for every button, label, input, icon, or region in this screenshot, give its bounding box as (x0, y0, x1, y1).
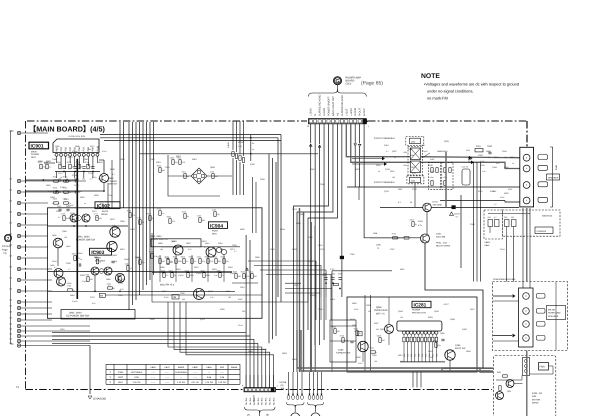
svg-text:R186: R186 (428, 164, 433, 167)
svg-text:0.047: 0.047 (500, 196, 505, 199)
svg-text:NOTE: NOTE (421, 73, 440, 80)
svg-text:R890: R890 (160, 266, 165, 269)
svg-text:Q281: Q281 (376, 306, 382, 309)
svg-text:L-GND: L-GND (310, 108, 313, 116)
svg-text:R28: R28 (414, 354, 417, 357)
svg-text:Q515: Q515 (494, 156, 499, 159)
svg-text:BT93, 132: BT93, 132 (532, 392, 543, 395)
svg-text:L504: L504 (403, 164, 407, 167)
svg-text:C376: C376 (412, 188, 417, 191)
svg-text:Q904: Q904 (66, 245, 70, 248)
svg-text:R894: R894 (70, 294, 75, 297)
svg-text:100: 100 (337, 330, 340, 333)
svg-text:330: 330 (218, 260, 221, 263)
svg-text:EXCEPT KB50/KBs3: EXCEPT KB50/KBs3 (374, 181, 395, 184)
svg-text:2k: 2k (410, 201, 412, 204)
svg-text:0.01: 0.01 (412, 172, 416, 175)
svg-text:4.7k: 4.7k (172, 220, 175, 223)
svg-text:0.01: 0.01 (182, 161, 186, 164)
svg-text:R600: R600 (157, 165, 161, 168)
svg-text:MAIN: MAIN (31, 151, 37, 154)
svg-text:C939: C939 (478, 154, 483, 157)
svg-text:47μ: 47μ (175, 161, 178, 164)
svg-text:L-OUT: L-OUT (345, 108, 348, 116)
svg-text:1k: 1k (359, 332, 361, 335)
svg-text:100: 100 (114, 260, 117, 263)
svg-text:C788: C788 (67, 285, 71, 288)
svg-text:4.7: 4.7 (108, 284, 111, 287)
svg-text:R28: R28 (421, 354, 424, 357)
svg-text:C276: C276 (90, 296, 95, 299)
svg-text:D828: D828 (377, 335, 381, 338)
svg-text:Q583: Q583 (380, 328, 385, 331)
svg-text:D741: D741 (433, 201, 439, 204)
svg-text:100: 100 (126, 264, 129, 267)
svg-text:D372: D372 (182, 171, 186, 174)
svg-text:PQ5A: PQ5A (212, 230, 218, 233)
svg-text:0.01: 0.01 (120, 288, 124, 291)
svg-text:47μ/50: 47μ/50 (178, 274, 184, 277)
svg-text:IC904: IC904 (210, 223, 223, 229)
svg-text:DET ±-5: DET ±-5 (376, 312, 385, 315)
svg-text:Q629: Q629 (444, 140, 449, 143)
svg-text:100: 100 (99, 217, 102, 220)
svg-text:47μ: 47μ (438, 344, 441, 347)
svg-text:Q624: Q624 (376, 164, 381, 167)
svg-text:C628: C628 (260, 178, 265, 181)
svg-text:C370: C370 (157, 256, 161, 259)
svg-text:2.2k: 2.2k (482, 170, 485, 173)
svg-text:POWER SWITCH: POWER SWITCH (76, 238, 95, 241)
svg-text:C915: C915 (57, 205, 61, 208)
svg-text:4.7: 4.7 (204, 246, 207, 249)
svg-text:Q741: Q741 (436, 233, 442, 236)
svg-text:REG: REG (31, 156, 36, 159)
svg-text:330: 330 (182, 298, 185, 301)
svg-text:100k: 100k (410, 154, 414, 157)
svg-text:0.01: 0.01 (58, 180, 62, 183)
svg-text:1/2W: 1/2W (430, 176, 434, 179)
svg-text:D574: D574 (68, 156, 73, 159)
svg-text:C354: C354 (197, 256, 201, 259)
svg-text:SURROUND-GND: SURROUND-GND (341, 95, 344, 116)
svg-text:+3.15/+3.15, 3V5: +3.15/+3.15, 3V5 (68, 135, 86, 138)
svg-text:R876: R876 (355, 168, 360, 171)
svg-text:R274: R274 (67, 161, 71, 164)
svg-text:1k: 1k (96, 216, 98, 219)
svg-text:R28: R28 (425, 354, 428, 357)
svg-text:R310: R310 (310, 168, 315, 171)
svg-text:R839: R839 (466, 350, 471, 353)
svg-text:330: 330 (220, 248, 223, 251)
svg-text:R920: R920 (504, 192, 509, 195)
svg-text:•Voltages and waveforms are dc: •Voltages and waveforms are dc with resp… (424, 82, 519, 87)
svg-text:10k: 10k (400, 360, 403, 363)
svg-text:D301: D301 (60, 328, 65, 331)
svg-text:R749: R749 (490, 190, 495, 193)
svg-text:47μ/50: 47μ/50 (230, 272, 236, 275)
svg-text:D857: D857 (400, 268, 405, 271)
svg-text:100: 100 (392, 176, 395, 179)
svg-text:R915: R915 (72, 253, 76, 256)
svg-text:D824: D824 (169, 270, 173, 273)
svg-text:G: G (335, 79, 339, 85)
svg-text:CD AUX: CD AUX (2, 245, 11, 248)
svg-text:D895: D895 (106, 278, 111, 281)
svg-text:1.2K 2W: 1.2K 2W (205, 381, 213, 384)
svg-text:1k: 1k (415, 223, 417, 226)
svg-text:R28: R28 (435, 354, 438, 357)
svg-text:POWER: POWER (109, 180, 118, 183)
svg-text:100: 100 (504, 156, 507, 159)
svg-text:AU-IN-L: AU-IN-L (261, 396, 264, 405)
svg-text:Q188: Q188 (52, 158, 57, 161)
svg-text:L-GND: L-GND (350, 108, 353, 116)
svg-text:0.01: 0.01 (43, 166, 47, 169)
svg-text:C997: C997 (410, 166, 415, 169)
svg-text:0.5B: 0.5B (207, 376, 212, 379)
svg-text:2SC2458: 2SC2458 (436, 236, 446, 239)
svg-text:P20: P20 (60, 147, 63, 152)
svg-text:RELAY DRIVE: RELAY DRIVE (436, 245, 451, 248)
svg-text:C284: C284 (331, 273, 335, 276)
svg-text:Q667: Q667 (392, 150, 397, 153)
svg-text:D946: D946 (124, 258, 129, 261)
svg-text:R640: R640 (173, 256, 177, 259)
svg-text:L503: L503 (403, 151, 407, 154)
svg-text:D954: D954 (78, 252, 83, 255)
svg-text:D240: D240 (308, 236, 313, 239)
svg-text:D147: D147 (455, 213, 461, 216)
svg-text:D773: D773 (74, 184, 79, 187)
svg-text:R215: R215 (390, 170, 395, 173)
svg-text:Q630: Q630 (135, 256, 140, 259)
svg-text:1k: 1k (60, 176, 62, 179)
svg-text:C584: C584 (118, 294, 123, 297)
svg-text:330: 330 (162, 260, 165, 263)
svg-text:KB80: KB80 (192, 366, 198, 369)
svg-text:C833: C833 (366, 304, 371, 307)
svg-text:47μ/50: 47μ/50 (422, 150, 428, 153)
svg-text:R749: R749 (340, 335, 344, 338)
svg-text:MOTOR: MOTOR (532, 398, 541, 401)
svg-text:D464: D464 (330, 298, 335, 301)
svg-text:0.01: 0.01 (100, 202, 104, 205)
svg-text:R954: R954 (300, 213, 305, 216)
svg-text:C723: C723 (118, 282, 123, 285)
svg-text:+: + (525, 309, 527, 313)
svg-text:CD55/V0R5/V0R1/V0L5: CD55/V0R5/V0R1/V0L5 (493, 278, 516, 281)
svg-text:1k: 1k (512, 162, 514, 165)
svg-text:C162: C162 (92, 250, 97, 253)
svg-text:C937: C937 (390, 248, 395, 251)
svg-text:R352: R352 (433, 340, 437, 343)
svg-text:47K 1W: 47K 1W (191, 381, 198, 384)
svg-text:C913: C913 (149, 251, 153, 254)
svg-text:0.022: 0.022 (92, 176, 97, 179)
svg-text:1μ: 1μ (58, 202, 60, 205)
svg-text:330: 330 (202, 219, 205, 222)
svg-text:C274: C274 (58, 172, 63, 175)
svg-text:Q613: Q613 (110, 218, 115, 221)
svg-text:330: 330 (174, 246, 177, 249)
svg-text:D447: D447 (428, 350, 433, 353)
svg-text:+41.7: +41.7 (443, 303, 449, 306)
svg-text:AU-IN-L: AU-IN-L (245, 396, 248, 405)
svg-text:Q158: Q158 (492, 166, 497, 169)
svg-text:C144: C144 (238, 324, 243, 327)
svg-text:47μ/50: 47μ/50 (72, 150, 78, 153)
svg-text:R823: R823 (127, 210, 131, 213)
svg-text:C168: C168 (262, 348, 267, 351)
svg-text:CD POWER SWITCH: CD POWER SWITCH (66, 315, 90, 318)
svg-text:+: + (526, 156, 528, 160)
svg-text:1k: 1k (378, 170, 380, 173)
svg-text:C704: C704 (88, 172, 93, 175)
svg-text:Q918: Q918 (280, 228, 285, 231)
svg-text:R433: R433 (172, 240, 177, 243)
svg-text:F501: F501 (476, 145, 482, 148)
svg-text:R28: R28 (407, 354, 410, 357)
svg-text:1k: 1k (99, 261, 101, 264)
svg-text:R292: R292 (118, 376, 124, 379)
svg-text:4.7: 4.7 (58, 216, 61, 219)
svg-text:STANDBY SW: STANDBY SW (336, 352, 351, 355)
svg-text:Page: Page (2, 249, 8, 252)
svg-text:KB50: KB50 (150, 366, 156, 369)
svg-text:Q174: Q174 (308, 260, 313, 263)
svg-text:KB6a8: KB6a8 (231, 366, 238, 369)
svg-text:SURROUND: SURROUND (548, 312, 561, 315)
svg-text:R669: R669 (158, 242, 163, 245)
svg-text:C777: C777 (94, 213, 98, 216)
svg-text:under no-signal conditions,: under no-signal conditions, (427, 89, 474, 94)
svg-text:Q185: Q185 (248, 350, 253, 353)
svg-text:0B: 0B (173, 296, 176, 299)
svg-text:Q557: Q557 (470, 308, 475, 311)
svg-text:0.022: 0.022 (74, 218, 79, 221)
svg-text:+: + (526, 199, 528, 203)
svg-text:Q751: Q751 (320, 248, 325, 251)
svg-text:MK-SB: MK-SB (548, 309, 555, 312)
svg-text:47μ: 47μ (72, 289, 75, 292)
svg-text:47μ/50: 47μ/50 (68, 204, 74, 207)
svg-text:D595: D595 (120, 158, 125, 161)
svg-text:D551: D551 (408, 148, 413, 151)
svg-text:R-GND: R-GND (354, 108, 357, 116)
svg-text:1.2K 2W: 1.2K 2W (177, 381, 185, 384)
svg-text:KB500: KB500 (178, 366, 185, 369)
svg-text:R745: R745 (392, 232, 396, 235)
svg-text:R923: R923 (181, 256, 185, 259)
svg-text:2.2B: 2.2B (220, 376, 225, 379)
svg-text:Q286: Q286 (455, 344, 461, 347)
svg-text:CHA5513: CHA5513 (537, 230, 547, 233)
svg-text:+: + (526, 167, 528, 171)
svg-text:no mark:FM: no mark:FM (427, 96, 448, 101)
svg-text:MUTE SW: MUTE SW (455, 347, 466, 350)
svg-text:2.2: 2.2 (130, 267, 133, 270)
svg-text:2.2: 2.2 (162, 212, 165, 215)
svg-text:R673: R673 (202, 240, 207, 243)
svg-text:C50: C50 (504, 216, 507, 219)
svg-text:C535: C535 (504, 166, 509, 169)
svg-text:R639: R639 (94, 194, 99, 197)
svg-text:R263: R263 (241, 271, 245, 274)
svg-text:100: 100 (228, 296, 231, 299)
svg-text:47μ/50: 47μ/50 (196, 272, 202, 275)
svg-text:POWER ON/OFF: POWER ON/OFF (328, 96, 331, 116)
svg-text:R497: R497 (430, 158, 435, 161)
svg-text:R895: R895 (352, 302, 357, 305)
svg-text:330: 330 (430, 356, 433, 359)
svg-text:R283: R283 (338, 273, 342, 276)
svg-text:POWER SWITCH: POWER SWITCH (150, 238, 168, 241)
svg-text:R700: R700 (157, 208, 161, 211)
svg-text:B-OUT: B-OUT (363, 108, 366, 116)
svg-text:R619: R619 (176, 268, 181, 271)
svg-text:R128: R128 (350, 318, 355, 321)
svg-text:C726: C726 (60, 186, 65, 189)
svg-text:100: 100 (374, 360, 377, 363)
svg-text:R975: R975 (147, 213, 151, 216)
svg-text:AU-IN-L: AU-IN-L (257, 396, 260, 405)
svg-text:IC904: IC904 (118, 371, 124, 374)
svg-text:C986: C986 (170, 157, 174, 160)
svg-text:R375: R375 (478, 190, 483, 193)
svg-text:2.2: 2.2 (186, 260, 189, 263)
svg-text:+B: +B (336, 113, 339, 116)
svg-text:4.7: 4.7 (68, 268, 71, 271)
svg-text:Q250: Q250 (320, 183, 325, 186)
svg-text:R607: R607 (217, 270, 221, 273)
svg-text:Q285: Q285 (338, 349, 344, 352)
svg-text:R590: R590 (240, 228, 245, 231)
svg-text:SWITCH: SWITCH (109, 183, 118, 186)
svg-text:KB70: KB70 (164, 366, 170, 369)
svg-text:Q672: Q672 (292, 208, 297, 211)
svg-text:4.7k: 4.7k (345, 339, 348, 342)
svg-text:C724: C724 (137, 217, 141, 220)
svg-text:DR,GB: DR,GB (280, 381, 287, 384)
svg-text:【MAIN BOARD】(4/5): 【MAIN BOARD】(4/5) (29, 125, 105, 134)
svg-text:Q365: Q365 (62, 230, 67, 233)
svg-text:0.01: 0.01 (246, 275, 250, 278)
svg-text:330: 330 (238, 275, 241, 278)
svg-text:D969: D969 (486, 150, 491, 153)
svg-text:D266: D266 (356, 356, 361, 359)
svg-text:2k: 2k (397, 237, 399, 240)
svg-text:10k: 10k (88, 148, 91, 151)
svg-text:KB50/V0s3: KB50/V0s3 (542, 215, 553, 218)
svg-text:KB6a: KB6a (206, 366, 212, 369)
svg-text:2.2: 2.2 (494, 203, 497, 206)
svg-text:C705: C705 (210, 171, 214, 174)
svg-text:R317: R317 (294, 284, 299, 287)
svg-text:330: 330 (376, 328, 379, 331)
svg-text:1k: 1k (394, 156, 396, 159)
svg-text:MHB: MHB (555, 165, 558, 170)
svg-text:4.7k: 4.7k (202, 260, 205, 263)
svg-text:2.2k: 2.2k (112, 224, 115, 227)
svg-text:R969: R969 (75, 145, 80, 148)
svg-text:BACKLIGHT DET: BACKLIGHT DET (332, 96, 335, 116)
svg-text:Q590: Q590 (250, 163, 255, 166)
svg-text:0.022: 0.022 (102, 150, 107, 153)
svg-text:Q298: Q298 (450, 318, 455, 321)
svg-text:R565: R565 (508, 188, 512, 191)
svg-text:0.022: 0.022 (354, 308, 359, 311)
svg-text:47μ: 47μ (170, 260, 173, 263)
svg-text:R250: R250 (53, 176, 57, 179)
svg-text:47μ/50: 47μ/50 (48, 190, 54, 193)
svg-text:0.022: 0.022 (358, 362, 363, 365)
svg-text:10k: 10k (400, 316, 403, 319)
svg-text:2SC2458: 2SC2458 (433, 204, 443, 207)
svg-text:R493: R493 (420, 144, 425, 147)
svg-text:2.2: 2.2 (194, 260, 197, 263)
svg-text:R: R (314, 114, 317, 116)
svg-text:D225: D225 (55, 145, 60, 148)
svg-text:10k: 10k (160, 248, 163, 251)
svg-text:CN①: CN① (346, 82, 353, 85)
svg-text:PROTECTOR: PROTECTOR (412, 311, 426, 314)
svg-text:OVER LOAD: OVER LOAD (374, 309, 388, 312)
svg-text:C50: C50 (488, 216, 491, 219)
svg-text:Q563: Q563 (208, 290, 213, 293)
svg-text:330: 330 (162, 169, 165, 172)
svg-text:IC901: IC901 (31, 144, 44, 150)
svg-text:C925: C925 (350, 253, 355, 256)
svg-text:C204: C204 (165, 166, 170, 169)
svg-text:DRIVE: DRIVE (532, 402, 539, 405)
svg-text:10k: 10k (58, 191, 61, 194)
svg-text:R719: R719 (85, 161, 89, 164)
svg-text:D739: D739 (130, 228, 135, 231)
svg-text:330: 330 (254, 275, 257, 278)
svg-text:Q906: Q906 (67, 282, 71, 285)
svg-text:D861: D861 (84, 158, 89, 161)
svg-text:R9: R9 (252, 142, 254, 145)
svg-text:C560: C560 (487, 145, 493, 148)
svg-text:D506: D506 (117, 274, 121, 277)
svg-text:1k: 1k (162, 272, 164, 275)
svg-text:47μ/50: 47μ/50 (72, 300, 78, 303)
svg-text:C128: C128 (70, 212, 75, 215)
svg-text:C960: C960 (296, 222, 301, 225)
svg-text:Q119: Q119 (384, 144, 388, 147)
svg-text:MCU-TR +5.4: MCU-TR +5.4 (160, 284, 175, 287)
svg-text:1μ: 1μ (187, 175, 189, 178)
svg-text:2.2: 2.2 (49, 166, 52, 169)
svg-text:D552: D552 (292, 248, 297, 251)
svg-text:10A: 10A (281, 387, 285, 390)
svg-text:C383: C383 (232, 244, 237, 247)
svg-text:D577: D577 (90, 145, 95, 148)
svg-text:0.01: 0.01 (210, 260, 214, 263)
svg-text:10k: 10k (82, 178, 85, 181)
svg-text:MCP78M05: MCP78M05 (131, 371, 143, 374)
svg-text:1μ: 1μ (377, 246, 379, 249)
svg-text:Q187: Q187 (150, 158, 155, 161)
svg-text:1μ: 1μ (174, 274, 176, 277)
svg-text:C544: C544 (108, 194, 113, 197)
svg-text:D324: D324 (352, 324, 357, 327)
svg-text:R878: R878 (212, 268, 217, 271)
svg-text:POWER: POWER (31, 153, 40, 156)
svg-text:1.2K 2W: 1.2K 2W (133, 381, 141, 384)
svg-text:S-GND: S-GND (323, 108, 326, 116)
